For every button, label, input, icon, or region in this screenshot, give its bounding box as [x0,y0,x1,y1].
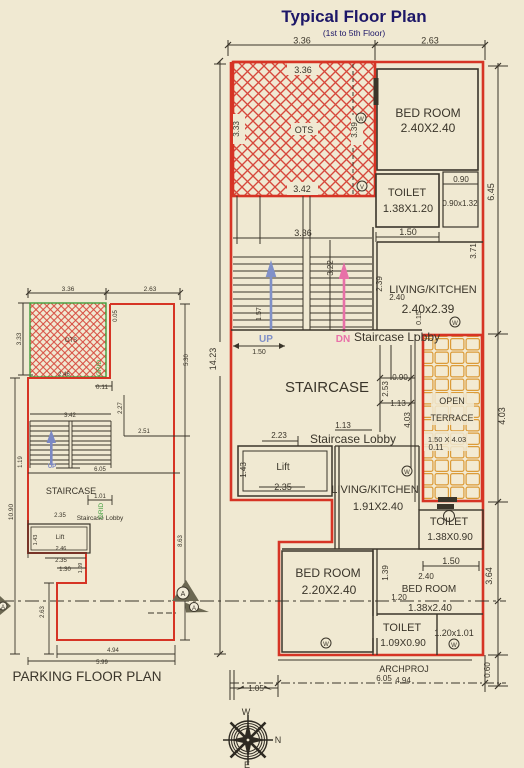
bedroom section top wall [282,548,483,550]
svg-text:2.39: 2.39 [375,276,384,292]
svg-text:4.03: 4.03 [403,412,412,428]
svg-text:W: W [404,470,410,476]
stair center rails [303,196,310,330]
lobby2 dims [262,430,372,446]
window mark W bedroom2 [321,638,331,648]
svg-text:W: W [323,642,329,648]
svg-text:3.71: 3.71 [469,243,478,259]
dim 1.50 toilet [376,232,439,242]
stair dim 3.36 [233,196,372,330]
svg-text:1.13: 1.13 [335,421,351,430]
interior wall [373,549,377,655]
svg-text:W: W [452,321,458,327]
svg-text:W: W [242,707,251,717]
svg-text:OTS: OTS [295,125,314,135]
section line A-A [0,600,506,602]
svg-text:2.35: 2.35 [54,513,66,519]
svg-text:3.33: 3.33 [16,332,23,345]
svg-text:0.11: 0.11 [429,443,445,452]
compass rose [223,715,273,765]
svg-text:DN: DN [336,334,350,345]
svg-text:2.40x2.39: 2.40x2.39 [402,302,455,316]
svg-text:TOILET: TOILET [388,187,427,199]
svg-text:Staircase Lobby: Staircase Lobby [354,330,440,344]
svg-text:2.27: 2.27 [118,402,124,414]
svg-text:1.05: 1.05 [248,684,264,693]
svg-text:2.40: 2.40 [389,293,405,302]
svg-text:UP: UP [259,334,273,345]
svg-text:2.35: 2.35 [274,482,292,492]
parking lift walls [28,524,90,553]
svg-text:1.57: 1.57 [256,307,263,321]
toilet2 walls [419,510,483,549]
window circle toilet2 [444,511,455,522]
vent mark V [357,181,367,191]
main outline red walls [231,62,483,655]
svg-text:1.39: 1.39 [381,565,390,581]
svg-text:GRID: GRID [98,503,105,520]
svg-text:2.53: 2.53 [381,381,390,397]
svg-text:Lift: Lift [276,462,290,473]
dn arrow [339,262,350,332]
svg-text:3.36: 3.36 [294,228,312,238]
svg-text:W: W [451,643,457,649]
open terrace labels [431,393,474,425]
svg-text:W: W [358,117,364,123]
svg-text:PARKING FLOOR PLAN: PARKING FLOOR PLAN [12,669,161,684]
archproj line [278,659,472,661]
svg-text:1.09X0.90: 1.09X0.90 [380,638,426,649]
svg-text:2.46: 2.46 [56,546,67,552]
window mark W lobby [402,466,412,476]
section marker A right [172,580,199,601]
parking OTS hatched area [30,303,106,377]
stair bottom dim [233,343,285,349]
dim 4.03 terrace left [414,334,416,502]
svg-text:1.50: 1.50 [399,227,417,237]
open terrace [423,335,482,501]
OTS hatched area [233,62,375,196]
svg-text:OPEN: OPEN [439,396,465,406]
top dimension line [228,40,485,60]
bedroom3 dims [423,561,479,571]
svg-text:4.94: 4.94 [107,648,119,654]
svg-text:A: A [192,606,196,612]
svg-text:2.40X2.40: 2.40X2.40 [401,121,456,135]
svg-text:0.05: 0.05 [113,310,119,322]
svg-text:3.36: 3.36 [62,286,75,293]
svg-text:TERRACE: TERRACE [430,413,473,423]
svg-text:0.90: 0.90 [453,175,469,184]
svg-text:1.91X2.40: 1.91X2.40 [353,501,403,513]
svg-text:2.35: 2.35 [55,558,67,564]
svg-text:A: A [181,591,186,598]
svg-text:Lift: Lift [56,534,65,541]
svg-text:A: A [1,605,5,611]
svg-text:3.36: 3.36 [293,36,311,46]
parking bottom dims [28,645,175,665]
svg-text:UP: UP [48,464,56,470]
svg-text:1.50: 1.50 [252,349,266,356]
svg-text:3.42: 3.42 [293,184,311,194]
svg-text:0.60: 0.60 [483,662,492,678]
parking dim 2.63 left bottom [44,583,54,654]
svg-text:STAIRCASE: STAIRCASE [46,486,96,496]
svg-text:1.19: 1.19 [18,456,24,468]
svg-text:1.13: 1.13 [390,399,406,408]
svg-text:2.63: 2.63 [144,286,157,293]
svg-text:1.09: 1.09 [78,563,84,574]
svg-text:BED ROOM: BED ROOM [295,566,360,580]
parking dim 6.05 [28,468,180,473]
toilet3 walls [377,614,483,655]
svg-text:TOILET: TOILET [430,516,469,528]
parking up arrow [47,430,57,465]
OTS inner dashed boundary [352,64,354,195]
svg-text:Staircase Lobby: Staircase Lobby [310,432,396,446]
svg-text:GRID: GRID [96,360,103,377]
bedroom2 walls [282,551,373,652]
svg-text:2.63: 2.63 [40,606,46,618]
OTS label halos [287,63,319,75]
dim 0.90 [443,179,478,189]
staircase lobby1 wall [231,329,422,331]
bedroom1 walls [377,69,478,170]
svg-text:1.01: 1.01 [94,494,106,500]
svg-text:6.05: 6.05 [376,674,392,683]
parking left dim 10.90 [10,378,20,654]
svg-text:1.38x2.40: 1.38x2.40 [408,603,452,614]
up arrow [266,260,277,330]
svg-text:2.23: 2.23 [271,431,287,440]
svg-text:6.45: 6.45 [486,183,496,201]
svg-text:1.30: 1.30 [59,567,71,573]
svg-text:2.51: 2.51 [138,429,150,435]
svg-text:2.20X2.40: 2.20X2.40 [302,583,357,597]
livingkitchen2 walls [335,446,419,549]
parking dim 1.01 [88,495,112,505]
bedroom1 door leaf [374,78,379,105]
store walls [443,172,478,227]
toilet1 walls [376,174,439,227]
svg-text:5.30: 5.30 [184,354,190,366]
svg-text:8.63: 8.63 [178,535,184,547]
svg-text:(1st to 5th Floor): (1st to 5th Floor) [323,28,386,38]
parking stair treads [30,421,111,468]
right dimension line [488,63,508,689]
parking red outline [28,304,174,640]
svg-text:2.63: 2.63 [421,36,439,46]
lift walls [238,446,332,496]
bottom dimension line [230,655,506,700]
svg-text:BED ROOM: BED ROOM [402,584,456,595]
svg-text:STAIRCASE: STAIRCASE [285,379,369,396]
section marker A right lower [185,603,209,613]
staircase treads left flight [233,257,303,327]
window mark W store2 [449,639,459,649]
svg-text:3.64: 3.64 [484,567,494,585]
svg-text:4.94: 4.94 [395,676,411,685]
svg-text:0.11: 0.11 [96,384,109,391]
svg-text:BED ROOM: BED ROOM [395,106,460,120]
lobby dims [377,345,415,470]
parking left dim [18,303,33,375]
svg-text:10.90: 10.90 [8,503,15,520]
section marker A left edge [0,596,11,615]
svg-text:3.36: 3.36 [294,65,312,75]
svg-text:1.43: 1.43 [239,462,248,478]
svg-text:3.33: 3.33 [232,121,241,137]
svg-text:3.22: 3.22 [326,260,335,276]
svg-text:1.50: 1.50 [442,556,460,566]
livingkitchen1 top wall [377,241,483,243]
left dimension line 14.23 [214,58,226,657]
svg-text:OTS: OTS [65,338,77,344]
svg-text:ARCHPROJ: ARCHPROJ [379,664,429,674]
svg-text:0.90x1.32: 0.90x1.32 [442,199,478,208]
section line stub [148,612,176,614]
svg-text:4.03: 4.03 [497,407,507,425]
svg-text:N: N [275,735,282,745]
svg-text:1.20x1.01: 1.20x1.01 [434,628,474,638]
svg-text:14.23: 14.23 [208,348,218,371]
parking top dim [26,288,183,300]
svg-text:2.40: 2.40 [418,572,434,581]
svg-text:1.38X1.20: 1.38X1.20 [383,203,433,215]
svg-text:6.05: 6.05 [94,467,106,473]
svg-text:LIVING/KITCHEN: LIVING/KITCHEN [331,484,418,496]
svg-text:3.39: 3.39 [350,122,359,138]
window mark W [356,113,366,123]
parking right dim 5.30 8.63 [180,304,190,640]
window mark W livingkitchen1 [450,317,460,327]
svg-text:1.38X0.90: 1.38X0.90 [427,532,473,543]
svg-text:1.43: 1.43 [33,535,39,546]
svg-text:V: V [360,185,364,191]
svg-text:5.99: 5.99 [96,660,108,666]
svg-text:Typical Floor Plan: Typical Floor Plan [281,7,426,26]
svg-text:0.15: 0.15 [416,311,423,325]
terrace door threshold [438,497,457,502]
staircase treads right flight [310,257,372,327]
svg-text:E: E [244,760,250,768]
svg-text:TOILET: TOILET [383,622,422,634]
livingkitchen1 left wall [373,227,377,330]
svg-text:0.90: 0.90 [392,373,408,382]
